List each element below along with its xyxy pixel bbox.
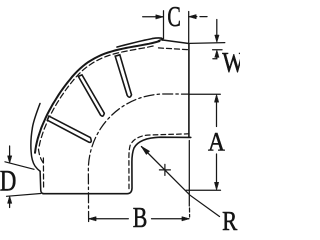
dim D bottom extension (extended bottom face)	[7, 194, 41, 197]
top end face far-rim lip	[117, 38, 163, 47]
dim A bottom extension	[186, 189, 221, 191]
dim A top extension	[189, 93, 220, 95]
dim C right extension line	[188, 12, 190, 44]
dashed companion arc inside outer arc	[39, 46, 154, 163]
svg-text:R: R	[222, 207, 237, 236]
dim C left extension line	[163, 11, 165, 39]
dim C left arrow	[143, 16, 164, 18]
inner bore line and inner arc	[43, 137, 191, 194]
gusset seam 3	[47, 116, 91, 142]
top bore hidden dashes under top face	[159, 48, 191, 50]
left end face far-rim lip	[31, 104, 40, 172]
R leader line	[141, 147, 219, 217]
dim W upper arrow	[216, 20, 218, 35]
construction vertical dashes to B line	[189, 208, 191, 217]
dim W lower arrow with hook	[213, 57, 217, 59]
svg-text:D: D	[0, 164, 16, 197]
left bore hidden dashes inside left face	[42, 158, 44, 189]
right end-face vertical line	[188, 44, 190, 138]
dim B line right segment with right arrow	[152, 218, 189, 220]
center mark plus	[159, 164, 170, 175]
left face near edge	[40, 171, 44, 194]
dim W lower extension tick	[213, 49, 222, 51]
dim A line upper with up arrow	[216, 102, 218, 127]
gusset seam 2	[78, 75, 104, 116]
construction vertical below inner corner	[188, 141, 190, 207]
dim D upper arrow	[9, 146, 11, 156]
R leader arrowhead	[141, 146, 149, 154]
gusset seam 1	[115, 55, 131, 97]
dim B line left segment with left arrow	[89, 218, 128, 220]
dim W top extension	[190, 42, 225, 45]
outer arc of elbow body	[35, 41, 159, 153]
svg-text:W: W	[222, 47, 240, 79]
svg-text:B: B	[133, 202, 148, 233]
svg-text:C: C	[167, 2, 180, 33]
centerline arc of bend (dash-dot)	[88, 94, 188, 222]
dim C right arrow	[189, 16, 197, 18]
dim D top extension	[5, 162, 34, 170]
top face near edge	[163, 40, 189, 44]
inner dashed companion arc	[129, 134, 189, 190]
dim A line lower with down arrow	[216, 154, 218, 183]
dim D lower arrow	[9, 204, 11, 208]
dim C trailing dash	[200, 16, 207, 18]
svg-text:A: A	[208, 128, 225, 156]
